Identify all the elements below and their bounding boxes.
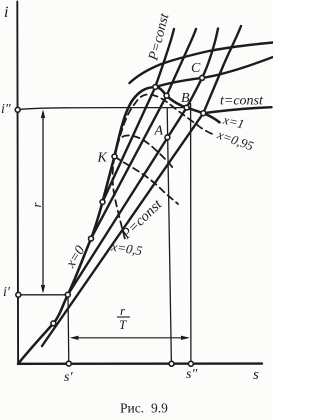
svg-text:x=0,5: x=0,5 [110, 238, 144, 258]
svg-text:B: B [181, 91, 190, 106]
svg-text:s″: s″ [186, 367, 197, 382]
svg-text:s: s [253, 367, 259, 383]
svg-text:P=const: P=const [146, 11, 173, 63]
svg-text:s′: s′ [64, 370, 73, 385]
svg-text:x=0,95: x=0,95 [215, 126, 257, 153]
svg-text:t=const: t=const [220, 94, 264, 109]
svg-text:9.9: 9.9 [151, 401, 168, 416]
svg-text:A: A [154, 124, 164, 139]
svg-text:r: r [29, 202, 44, 208]
svg-text:Рис.: Рис. [120, 401, 144, 416]
svg-text:C: C [191, 61, 201, 76]
svg-text:T: T [119, 317, 127, 332]
svg-text:i: i [4, 4, 8, 21]
svg-text:r: r [120, 303, 126, 318]
svg-text:i″: i″ [1, 102, 11, 117]
svg-text:i′: i′ [3, 285, 11, 300]
svg-text:K: K [97, 151, 108, 166]
